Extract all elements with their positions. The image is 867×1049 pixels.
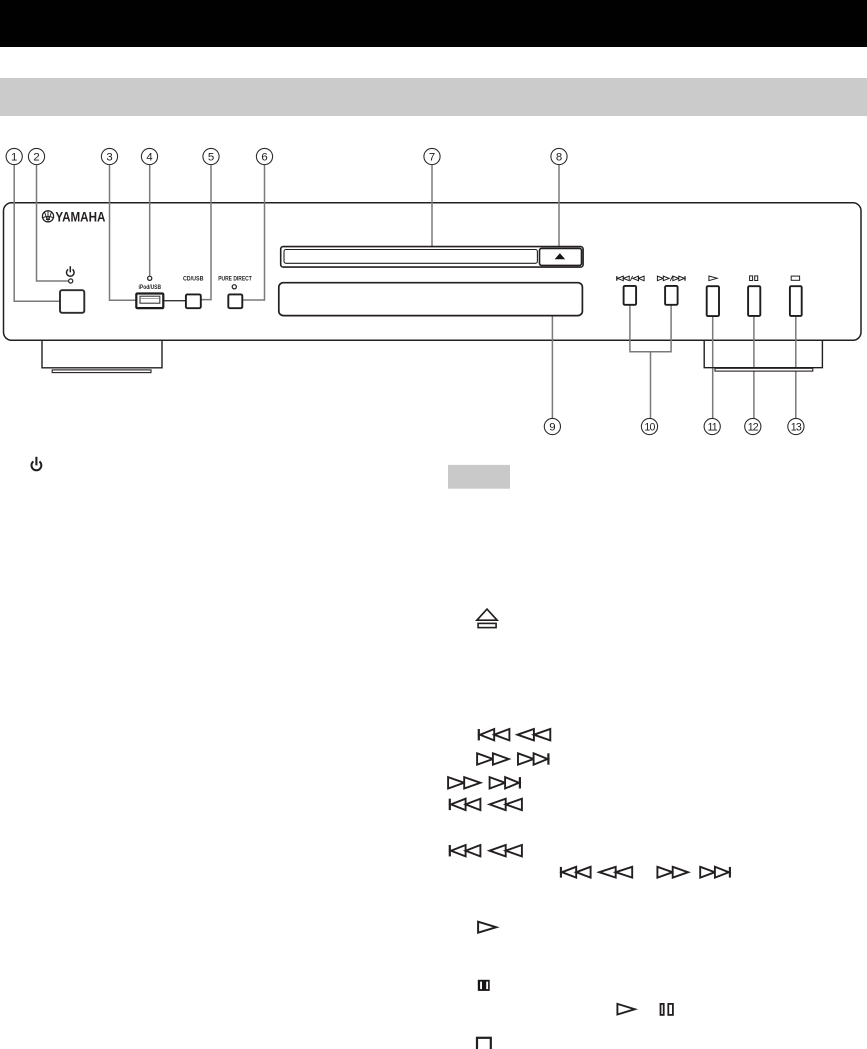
- leader line 7: [431, 165, 433, 247]
- leader line 11: [712, 316, 714, 418]
- skip back / search back icons row 4: [449, 799, 451, 810]
- svg-text:PURE DIRECT: PURE DIRECT: [218, 276, 252, 283]
- skip back button: [624, 286, 637, 305]
- svg-text:8: 8: [556, 152, 562, 164]
- callout 12: [745, 418, 761, 434]
- callout 7: [424, 148, 440, 164]
- svg-text:7: 7: [429, 152, 435, 164]
- leader line 8: [558, 165, 560, 249]
- disc tray assembly: [281, 247, 583, 268]
- svg-text:4: 4: [146, 152, 152, 164]
- search fwd / skip fwd icons row 3: [448, 777, 464, 788]
- iPod/USB LED: [148, 276, 152, 280]
- gray section header bar: [0, 78, 867, 117]
- standby symbol in text: [31, 457, 41, 470]
- leader line 9: [551, 300, 553, 419]
- wire port to CD/USB button: [164, 300, 186, 302]
- disc slot: [284, 250, 537, 264]
- svg-text:YAMAHA: YAMAHA: [55, 209, 105, 224]
- callout 6: [256, 148, 272, 164]
- Yamaha logo mark: [42, 211, 53, 222]
- pause button: [748, 286, 760, 316]
- leader line 12: [753, 316, 755, 418]
- display window: [279, 283, 583, 316]
- play label: [709, 276, 717, 281]
- left foot: [42, 341, 162, 368]
- right foot pad: [715, 368, 813, 371]
- svg-text:6: 6: [261, 152, 267, 164]
- eject triangle: [555, 253, 566, 259]
- search/skip fwd label: [657, 276, 663, 281]
- callout 10: [641, 418, 657, 434]
- svg-text:10: 10: [644, 422, 655, 434]
- iPod/USB port: [136, 294, 163, 309]
- skip/search back label: [616, 276, 618, 281]
- leader line 1: [14, 165, 60, 301]
- svg-text:1: 1: [11, 152, 17, 164]
- pause icon row 8: [478, 980, 490, 991]
- leader bracket 10: [629, 305, 672, 418]
- leader line 13: [795, 316, 797, 418]
- stop button: [790, 286, 802, 316]
- svg-text:CD/USB: CD/USB: [183, 276, 204, 283]
- callout 4: [141, 148, 157, 164]
- leader line 3: [110, 165, 136, 300]
- NOTE box: [448, 465, 510, 489]
- right foot: [704, 341, 822, 368]
- front panel outline: [4, 203, 862, 340]
- standby LED: [69, 279, 73, 283]
- leader line 5: [201, 165, 211, 300]
- PURE DIRECT LED: [232, 285, 236, 289]
- skip/search back and fwd icons row 6: [560, 867, 562, 878]
- skip back / search back icons row 5: [449, 845, 451, 856]
- callout 3: [101, 148, 117, 164]
- callout 8: [551, 148, 567, 164]
- play button: [707, 286, 719, 316]
- pause icon row 9: [661, 1004, 664, 1015]
- skip back / search back icons row 1: [478, 729, 480, 740]
- left foot pad: [52, 370, 151, 373]
- play icon row 9: [617, 1004, 634, 1015]
- leader line 2: [37, 165, 69, 281]
- callout 13: [788, 418, 804, 434]
- pause label: [750, 276, 753, 281]
- callout 1: [6, 148, 22, 164]
- stop icon row 10: [477, 1038, 491, 1049]
- svg-text:iPod/USB: iPod/USB: [139, 284, 162, 291]
- svg-text:12: 12: [748, 422, 759, 434]
- top black title bar: [0, 0, 867, 47]
- svg-text:3: 3: [106, 152, 112, 164]
- skip fwd button: [665, 286, 678, 305]
- svg-text:9: 9: [549, 422, 555, 434]
- leader line 6: [243, 165, 265, 300]
- svg-text:11: 11: [707, 422, 717, 434]
- callout 2: [28, 148, 44, 164]
- play icon row 7: [478, 922, 496, 933]
- callout 5: [203, 148, 219, 164]
- power button: [60, 290, 84, 313]
- callout 9: [544, 418, 560, 434]
- svg-text:5: 5: [208, 152, 214, 164]
- PURE DIRECT button: [228, 294, 242, 308]
- eject button: [540, 248, 582, 265]
- callout 11: [704, 418, 720, 434]
- standby symbol on panel: [67, 266, 75, 276]
- svg-text:13: 13: [791, 422, 802, 434]
- leader line 4: [149, 165, 151, 276]
- stop label: [791, 276, 799, 280]
- eject symbol in text: [477, 609, 497, 620]
- CD/USB button: [186, 294, 201, 308]
- svg-text:2: 2: [33, 152, 39, 164]
- search fwd / skip fwd icons row 2: [477, 753, 493, 764]
